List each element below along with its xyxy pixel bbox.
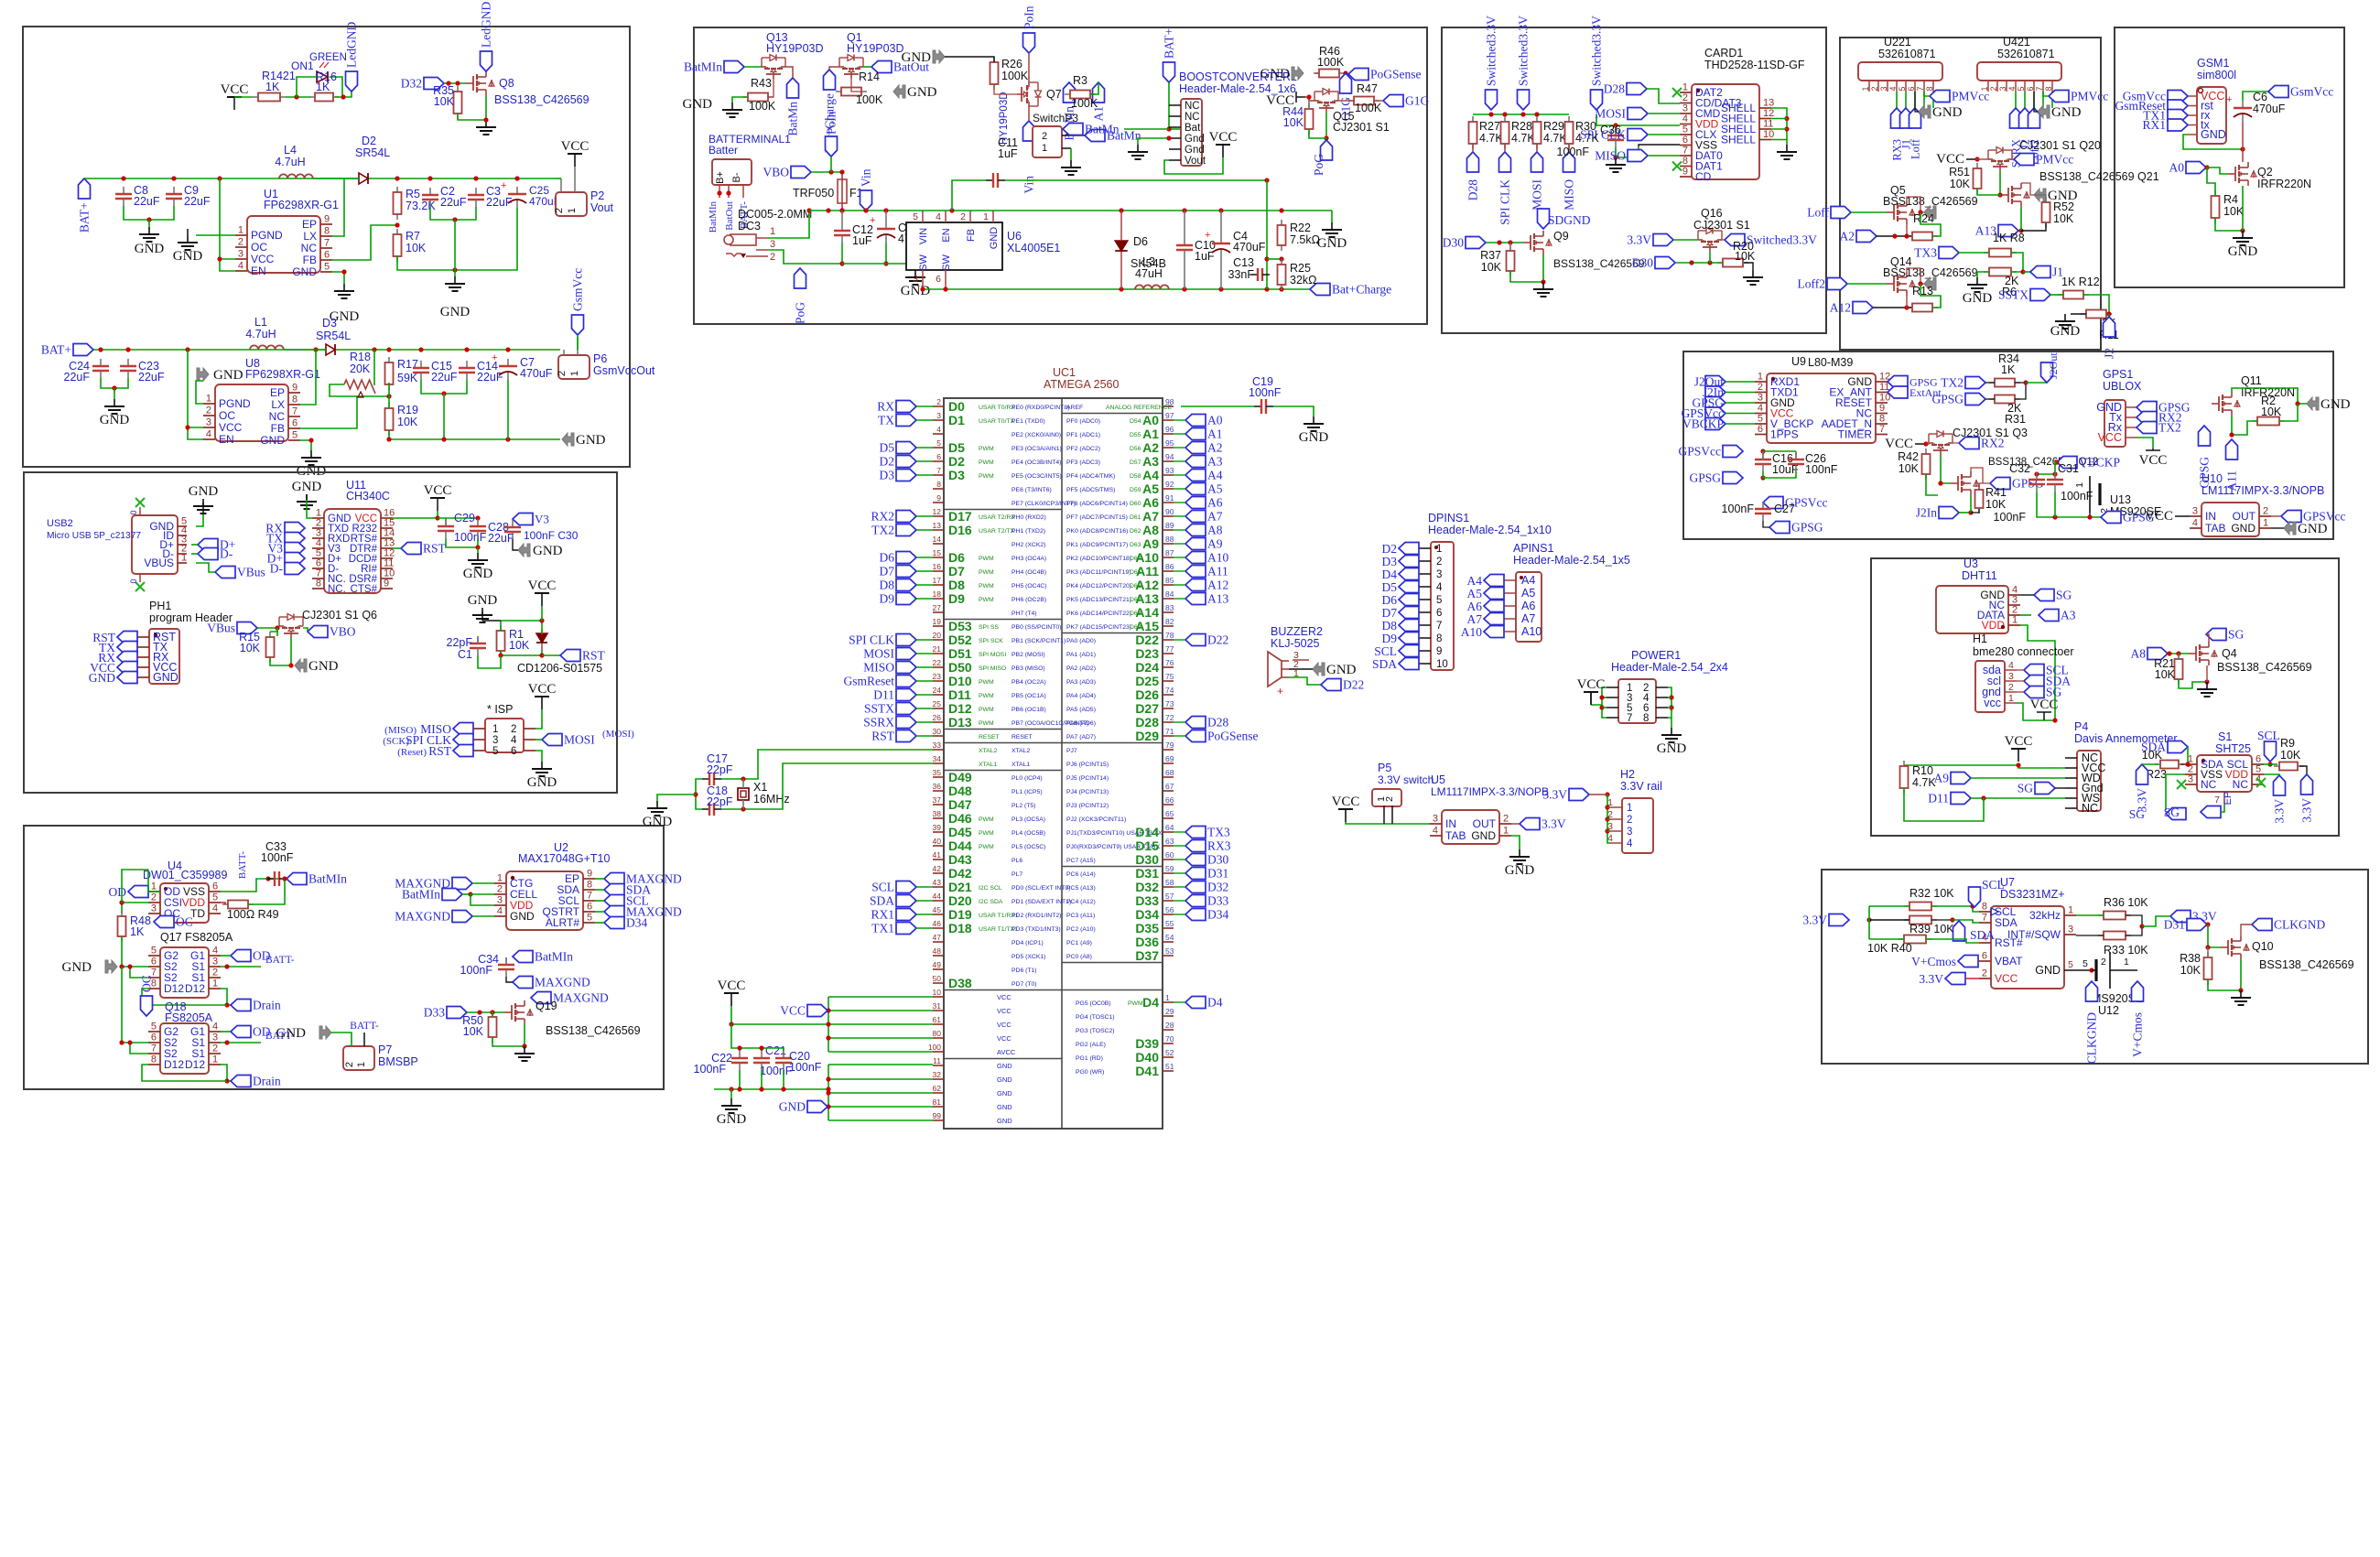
- svg-text:1: 1: [2068, 905, 2073, 916]
- UC1 pin 97 PF0 (ADC0): [1163, 419, 1174, 421]
- svg-text:1: 1: [569, 371, 580, 376]
- UC1 pin 28 PG3 (TOSC2): [1163, 1029, 1174, 1031]
- USB2 pin 2 D-: [178, 553, 187, 555]
- svg-text:PB3 (MISO): PB3 (MISO): [1011, 665, 1045, 672]
- svg-text:A10: A10: [1521, 625, 1542, 638]
- svg-text:8: 8: [587, 880, 592, 891]
- svg-text:PL5 (OC5C): PL5 (OC5C): [1011, 844, 1045, 850]
- transistor Q7: [1017, 82, 1042, 106]
- header PH1: [149, 629, 179, 684]
- net flag D6 (uc1 l): [896, 552, 916, 564]
- wire c36 gnd: [1615, 147, 1617, 157]
- svg-text:SHELL: SHELL: [1721, 134, 1756, 146]
- svg-text:6: 6: [2026, 86, 2035, 91]
- svg-text:R10: R10: [1912, 764, 1933, 777]
- net flag PMVcc (U421): [2049, 91, 2069, 103]
- svg-text:95: 95: [1165, 438, 1174, 448]
- svg-text:+: +: [1205, 230, 1210, 241]
- net flag D22 (buzzer): [1289, 677, 1321, 685]
- ground q4: [2206, 682, 2208, 689]
- resistor R44: [1308, 103, 1310, 109]
- USB2 connector: [132, 515, 178, 574]
- svg-text:D33: D33: [1207, 894, 1228, 908]
- svg-text:16: 16: [933, 562, 942, 571]
- IC U5 LM1117: [1442, 810, 1499, 844]
- svg-text:R3: R3: [1073, 74, 1087, 87]
- U5 pin 4 TAB: [1430, 835, 1442, 837]
- svg-text:8: 8: [1925, 86, 1934, 91]
- net flag SSTX (r12): [2030, 289, 2050, 301]
- svg-text:D35: D35: [1135, 921, 1159, 935]
- capacitor C21: [761, 1051, 763, 1058]
- svg-text:PB0 (SS/PCINT0): PB0 (SS/PCINT0): [1011, 624, 1061, 631]
- svg-text:A6: A6: [1142, 495, 1159, 510]
- net flag D5 (uc1 l): [896, 442, 916, 454]
- net flag GPSVcc (u10): [2281, 511, 2301, 523]
- net flag J2Out (r34): [2041, 362, 2053, 383]
- svg-text:PWM: PWM: [979, 460, 994, 466]
- svg-text:SCL: SCL: [871, 881, 894, 894]
- UC1 pin 23 PB4 (OC2A): [933, 680, 944, 682]
- svg-text:10K: 10K: [1950, 178, 1971, 190]
- U7 pin 3 INT#/SQW: [2064, 934, 2076, 935]
- UC1 pin 69 PJ6 (PCINT15): [1163, 762, 1174, 764]
- svg-text:0: 0: [129, 510, 138, 514]
- net flag A0 (uc1 r): [1185, 415, 1206, 427]
- U8 pin 4 EN: [203, 438, 215, 440]
- S1 pin 4 NC: [2252, 784, 2264, 785]
- svg-text:D5: D5: [880, 441, 895, 455]
- svg-text:GND: GND: [1932, 105, 1963, 120]
- UC1 pin 14 PH2 (XCK2): [933, 543, 944, 545]
- svg-text:1: 1: [1627, 803, 1632, 814]
- svg-text:PH4 (OC4B): PH4 (OC4B): [1011, 569, 1046, 576]
- net flag J2In (q12): [1939, 507, 1959, 519]
- U1 pin 3 VCC: [235, 258, 247, 260]
- svg-text:D28: D28: [1466, 179, 1480, 200]
- svg-text:10K: 10K: [463, 1025, 484, 1038]
- svg-text:X1: X1: [753, 781, 767, 794]
- net flag 3.3V (q16): [1653, 234, 1673, 246]
- svg-text:A2: A2: [1207, 441, 1223, 455]
- net flag D4 (uc1 pg): [1185, 997, 1206, 1009]
- wire caps bottom row2: [430, 207, 476, 220]
- svg-text:PB1 (SCK/PCINT1): PB1 (SCK/PCINT1): [1011, 638, 1066, 644]
- svg-text:XTAL2: XTAL2: [1011, 748, 1030, 754]
- svg-text:VBAT: VBAT: [1995, 955, 2023, 968]
- svg-text:79: 79: [1165, 741, 1174, 750]
- net flag A5 (uc1 r): [1185, 483, 1206, 495]
- svg-text:GND: GND: [997, 1089, 1012, 1097]
- svg-text:VCC: VCC: [528, 682, 557, 697]
- U11 pin 8 NC.: [312, 588, 324, 589]
- svg-text:D12: D12: [185, 982, 205, 995]
- svg-text:4: 4: [1758, 403, 1763, 414]
- svg-text:9: 9: [1682, 167, 1688, 178]
- gnd flag p7: [319, 1026, 331, 1039]
- svg-text:GsmVcc: GsmVcc: [2290, 85, 2333, 99]
- svg-text:22pF: 22pF: [707, 795, 733, 808]
- U6 pins top: [922, 211, 924, 222]
- BOOST pin Gnd: [1169, 137, 1181, 139]
- svg-text:90: 90: [1165, 507, 1174, 516]
- svg-text:7: 7: [151, 1043, 157, 1054]
- svg-text:PWM: PWM: [979, 446, 994, 452]
- wire r1 top: [500, 621, 502, 631]
- net flag 3.3V (u5): [1520, 818, 1540, 830]
- svg-text:VBCKP: VBCKP: [1682, 417, 1724, 431]
- svg-text:PG1 (RD): PG1 (RD): [1076, 1055, 1103, 1062]
- USB2 pin 5 GND: [178, 525, 187, 527]
- svg-text:GND: GND: [902, 50, 932, 65]
- svg-text:PL4 (OC5B): PL4 (OC5B): [1011, 830, 1045, 837]
- svg-text:Header-Male-2.54_1x5: Header-Male-2.54_1x5: [1513, 554, 1630, 567]
- svg-text:GND: GND: [308, 659, 339, 674]
- svg-text:RX1: RX1: [871, 908, 894, 922]
- svg-text:9: 9: [1879, 403, 1885, 414]
- svg-text:D28: D28: [1604, 82, 1625, 96]
- svg-text:PWM: PWM: [979, 473, 994, 480]
- svg-text:5: 5: [2068, 959, 2073, 970]
- net flag V+Cmos (u12): [2132, 981, 2144, 1001]
- svg-text:A7: A7: [1521, 612, 1535, 625]
- svg-text:DPINS1: DPINS1: [1428, 512, 1469, 524]
- svg-text:TX2: TX2: [1941, 376, 1963, 390]
- wire U1 PGND: [196, 234, 235, 236]
- svg-text:PMVcc: PMVcc: [2071, 90, 2108, 103]
- svg-text:19: 19: [933, 617, 942, 626]
- wire vcc bus: [731, 1006, 828, 1024]
- LED ON1 GREEN: [317, 71, 328, 82]
- resistor R30: [1568, 116, 1570, 122]
- svg-text:B-: B-: [731, 172, 742, 182]
- svg-text:3.3V: 3.3V: [1802, 914, 1827, 927]
- svg-text:VCC: VCC: [1209, 130, 1238, 145]
- UC1 pin 10 VCC: [933, 996, 944, 998]
- net flag A10 (uc1 r): [1185, 552, 1206, 564]
- UC1 pin 27 PH7 (T4): [933, 611, 944, 613]
- net flag V+Cmos (rtc): [1958, 956, 1978, 968]
- capacitor C17 22pF: [702, 778, 709, 780]
- gnd flag q1: [893, 85, 905, 98]
- svg-text:PJ5 (PCINT14): PJ5 (PCINT14): [1066, 775, 1109, 782]
- svg-text:PWM: PWM: [979, 569, 994, 576]
- svg-text:5: 5: [913, 211, 918, 222]
- svg-text:51: 51: [1165, 1062, 1174, 1071]
- net flag SG (s1 vss): [2166, 808, 2186, 820]
- svg-text:6: 6: [1907, 86, 1916, 91]
- svg-text:GND: GND: [997, 1076, 1012, 1084]
- wire q17 batt-: [221, 966, 261, 968]
- svg-text:PJ4 (PCINT13): PJ4 (PCINT13): [1066, 789, 1109, 795]
- svg-text:GPSG: GPSG: [1689, 471, 1721, 485]
- net flag D31 (uc1 r): [1185, 868, 1206, 880]
- svg-text:100K: 100K: [1001, 70, 1029, 82]
- svg-text:A0: A0: [1207, 414, 1223, 427]
- UC1 pin 81 GND: [933, 1106, 944, 1108]
- svg-text:GND: GND: [779, 1100, 806, 1114]
- svg-text:D24: D24: [1135, 660, 1159, 675]
- wire caps bottom row3: [421, 380, 467, 394]
- svg-text:PD1 (SDA/EXT INT1): PD1 (SDA/EXT INT1): [1011, 899, 1071, 905]
- wire: [124, 206, 174, 220]
- svg-text:10K: 10K: [2142, 749, 2163, 762]
- wire r2 gnd: [2279, 404, 2298, 421]
- net flag RX2 (gps1): [2137, 412, 2157, 424]
- svg-text:D22: D22: [1207, 633, 1228, 647]
- svg-text:PG0 (WR): PG0 (WR): [1076, 1069, 1104, 1076]
- svg-text:GND: GND: [1317, 236, 1347, 251]
- svg-text:13: 13: [933, 521, 942, 530]
- svg-text:A3: A3: [2061, 609, 2076, 622]
- U421 pins: [1987, 81, 1989, 92]
- net flag A6 (apins): [1484, 600, 1504, 612]
- svg-text:2: 2: [511, 724, 516, 735]
- svg-text:7: 7: [1436, 621, 1442, 632]
- net flag TX (u11): [285, 533, 305, 545]
- svg-text:SR54L: SR54L: [316, 330, 351, 342]
- UC1 pin 54 PC1 (A9): [1163, 941, 1174, 943]
- U3 pin 1 VDD: [2008, 624, 2020, 626]
- svg-text:PA5 (AD5): PA5 (AD5): [1066, 707, 1096, 713]
- ground q9: [1542, 282, 1544, 289]
- Q18 pin 8 D12: [148, 1064, 160, 1065]
- svg-text:100nF: 100nF: [789, 1061, 822, 1074]
- svg-text:PB5 (OC1A): PB5 (OC1A): [1011, 693, 1046, 699]
- net flag MOSI (uc1 l): [896, 648, 916, 660]
- svg-text:A1: A1: [1207, 427, 1223, 441]
- svg-text:SPI CLK: SPI CLK: [849, 633, 894, 647]
- net flag RST (isp): [453, 745, 473, 757]
- svg-text:Drain: Drain: [253, 1075, 281, 1088]
- gnd flag right row3: [562, 433, 574, 446]
- UC1 pin 84 PK5 (ADC13/PCINT21): [1163, 598, 1174, 600]
- svg-text:SG: SG: [2056, 589, 2072, 602]
- P6 stubs: [563, 350, 565, 355]
- net flag D2 (dpins): [1399, 543, 1419, 555]
- S1 pin 1 SDA: [2185, 763, 2197, 765]
- svg-text:GND: GND: [997, 1062, 1012, 1070]
- svg-text:10K: 10K: [2155, 668, 2176, 681]
- wire U1 EN/VCC: [220, 178, 235, 271]
- svg-text:7: 7: [324, 238, 330, 249]
- svg-text:MAX17048G+T10: MAX17048G+T10: [518, 852, 610, 865]
- svg-text:XTAL1: XTAL1: [979, 762, 997, 768]
- wire u4 left: [122, 903, 148, 914]
- svg-text:73: 73: [1165, 699, 1174, 708]
- CARD1 pin 12 SHELL: [1759, 118, 1771, 120]
- net flag D8 (dpins): [1399, 620, 1419, 632]
- wire crystal left: [696, 779, 702, 809]
- VCC pole p5: [1345, 809, 1347, 822]
- net flag MOSI (sd): [1531, 152, 1543, 172]
- UC1 pin 38 PL3 (OC5A): [933, 817, 944, 819]
- U9 pin 4 VCC: [1755, 413, 1767, 415]
- U9 pin 10 RESET: [1876, 402, 1888, 404]
- DPINS1 pin 6 D7: [1419, 611, 1431, 613]
- svg-text:4: 4: [936, 425, 941, 434]
- svg-text:GND: GND: [717, 1112, 747, 1127]
- svg-text:TAB: TAB: [2205, 522, 2225, 535]
- svg-text:100nF: 100nF: [760, 1065, 793, 1077]
- svg-text:GND: GND: [292, 265, 317, 278]
- U2 pin 8 SDA: [583, 889, 595, 891]
- svg-text:PF4 (ADC4/TMK): PF4 (ADC4/TMK): [1066, 473, 1115, 480]
- net flag BatMn (boost): [1063, 124, 1083, 135]
- svg-text:PC6 (A14): PC6 (A14): [1066, 871, 1096, 878]
- svg-text:R47: R47: [1357, 82, 1378, 95]
- net flag RST (u11): [401, 543, 421, 555]
- svg-text:7.5kΩ: 7.5kΩ: [1290, 233, 1320, 246]
- net flag SG (u3): [2034, 589, 2054, 601]
- svg-text:A1: A1: [1142, 427, 1159, 441]
- svg-text:20: 20: [933, 631, 942, 640]
- svg-text:2: 2: [1384, 796, 1395, 802]
- S1 pin 6 SCL: [2252, 763, 2264, 765]
- svg-text:1: 1: [1042, 143, 1047, 154]
- svg-text:BATT-: BATT-: [350, 1021, 379, 1032]
- svg-text:10K: 10K: [509, 639, 530, 652]
- net flag BatMIn (u4): [287, 873, 307, 885]
- net flag TX1 (gsm): [2168, 110, 2188, 122]
- net flag PoGSense (uc1 r): [1185, 730, 1206, 742]
- svg-text:V3: V3: [535, 513, 549, 526]
- svg-text:99: 99: [933, 1111, 942, 1120]
- svg-text:41: 41: [933, 850, 942, 860]
- IC U10 LM1117: [2201, 503, 2259, 536]
- svg-text:7: 7: [1879, 424, 1885, 435]
- svg-text:100: 100: [928, 1043, 941, 1052]
- capacitor C25 470uF: [516, 187, 518, 194]
- svg-text:GND: GND: [135, 242, 165, 256]
- svg-text:bme280 connectoer: bme280 connectoer: [1973, 645, 2074, 658]
- svg-text:10K: 10K: [2180, 964, 2201, 977]
- svg-text:A13: A13: [1207, 592, 1228, 606]
- svg-text:SSTX: SSTX: [1998, 288, 2028, 302]
- svg-text:GND: GND: [533, 544, 563, 558]
- svg-text:4: 4: [212, 903, 218, 914]
- APINS1 pin A4: [1504, 579, 1516, 581]
- svg-text:83: 83: [1165, 603, 1174, 612]
- net flag PMVcc (U221): [1930, 91, 1950, 103]
- IC U4 DW01: [160, 883, 209, 923]
- R24 label: [1920, 212, 1941, 236]
- wire r34 r31: [2015, 383, 2026, 399]
- svg-text:Q2: Q2: [2257, 166, 2273, 178]
- svg-text:36: 36: [933, 782, 942, 791]
- ground c5: [914, 264, 916, 270]
- svg-text:Q4: Q4: [2222, 647, 2237, 660]
- net flag Vin (rail): [860, 190, 872, 211]
- svg-text:D55: D55: [1130, 432, 1141, 438]
- U3 pin 4 GND: [2008, 594, 2020, 596]
- svg-text:D33: D33: [1135, 893, 1159, 908]
- svg-text:A11: A11: [1136, 564, 1159, 578]
- svg-text:5: 5: [1758, 414, 1763, 425]
- net flag RST (rc): [560, 650, 580, 662]
- connector P4 Davis: [2077, 751, 2101, 811]
- svg-text:GND: GND: [100, 413, 130, 427]
- net flag BAT+ (row3): [73, 344, 93, 356]
- svg-text:1: 1: [1682, 82, 1688, 93]
- wire rst node: [501, 650, 542, 655]
- UC1 pin 74 PA4 (AD4): [1163, 694, 1174, 696]
- svg-text:33nF: 33nF: [1228, 268, 1255, 281]
- svg-text:87: 87: [1165, 548, 1174, 557]
- svg-text:92: 92: [1165, 480, 1174, 489]
- UC1 pin 64 PJ1(TXD3/PCINT10) USAR T3/TX: [1163, 831, 1174, 833]
- svg-text:Bat+Charge: Bat+Charge: [1332, 283, 1391, 297]
- U8 PGND gnd flag: [197, 368, 209, 381]
- U4 pin 3 OC: [148, 913, 160, 914]
- UC1 pin 73 PA5 (AD5): [1163, 708, 1174, 709]
- wire boost vout: [1164, 157, 1223, 174]
- ground u11 caps: [477, 553, 479, 560]
- wire c11: [952, 180, 986, 211]
- svg-text:5: 5: [151, 946, 157, 957]
- svg-text:2: 2: [2101, 957, 2106, 968]
- net flag MISO (card): [1628, 150, 1648, 162]
- svg-text:PH2 (XCK2): PH2 (XCK2): [1011, 542, 1045, 548]
- svg-text:DHT11: DHT11: [1962, 569, 1997, 582]
- svg-text:A13: A13: [1135, 591, 1159, 606]
- svg-text:PA4 (AD4): PA4 (AD4): [1066, 693, 1096, 699]
- svg-text:22: 22: [933, 658, 942, 667]
- svg-text:GND: GND: [463, 567, 493, 581]
- svg-text:70: 70: [1165, 1034, 1174, 1043]
- net flag D28 (card): [1627, 83, 1647, 95]
- header P6: [558, 355, 590, 379]
- transistor Q12 BSS138: [1951, 482, 1958, 484]
- capacitor C23: [127, 359, 129, 366]
- UC1 pin 100 AVCC: [933, 1051, 944, 1053]
- svg-text:93: 93: [1165, 466, 1174, 475]
- Q18 pin 2 S1: [209, 1053, 221, 1054]
- svg-text:D25: D25: [1135, 674, 1159, 688]
- svg-text:Q7: Q7: [1046, 88, 1062, 101]
- svg-text:D41: D41: [1135, 1064, 1159, 1078]
- net flag A10 (apins): [1484, 626, 1504, 638]
- IC U221 532610871: [1858, 62, 1942, 81]
- svg-text:5: 5: [2017, 86, 2026, 91]
- UC1 pin 78 PA0 (AD0): [1163, 639, 1174, 641]
- resistor R48: [121, 911, 123, 916]
- svg-text:SCL: SCL: [1982, 878, 2005, 892]
- net flag TX (uc1 l): [896, 415, 916, 427]
- svg-text:VCC: VCC: [718, 979, 746, 993]
- svg-text:GND: GND: [1657, 741, 1687, 756]
- capacitor C36: [1615, 128, 1617, 135]
- svg-text:GREEN: GREEN: [309, 52, 347, 63]
- net flag D31 (q10): [2187, 919, 2207, 931]
- capacitor C15: [420, 361, 422, 368]
- CARD1 pin 5 CLX: [1680, 134, 1692, 135]
- svg-text:RST: RST: [871, 730, 895, 743]
- net flag GPSG (u9): [1705, 397, 1725, 409]
- svg-text:D36: D36: [1135, 935, 1159, 949]
- UC1 pin 31 VCC: [933, 1010, 944, 1011]
- Q18 pin 3 S1: [209, 1042, 221, 1043]
- svg-text:10K: 10K: [2053, 212, 2074, 225]
- svg-text:35: 35: [933, 768, 942, 777]
- crystal X1: [738, 788, 749, 800]
- net flag SSRX (uc1 l): [896, 717, 916, 729]
- svg-text:+: +: [492, 352, 497, 363]
- svg-text:SG: SG: [2228, 628, 2245, 642]
- svg-text:10K: 10K: [2280, 749, 2301, 762]
- net flag MAXGND (u2 gnd): [452, 911, 472, 923]
- svg-text:R42: R42: [1898, 450, 1919, 463]
